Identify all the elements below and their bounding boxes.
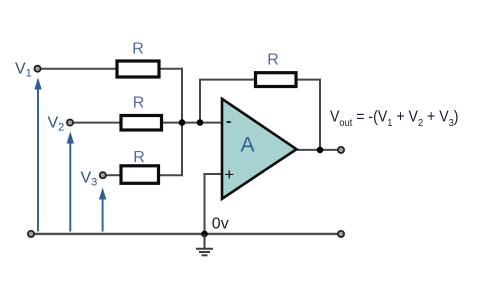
wire feedback drop vertical [319,79,321,150]
svg-text:R: R [132,41,144,58]
svg-text:V3: V3 [81,170,98,189]
svg-text:R: R [267,52,279,69]
arrow V2 [67,132,74,232]
wire non-inverting input to ground rail [204,173,206,234]
terminal output [338,147,344,153]
terminal rail left [28,231,34,237]
terminal rail right [338,231,344,237]
wire feedback riser [199,80,201,123]
wire V2 to R2 [73,122,120,124]
junction ground rail [201,231,208,238]
svg-text:V2: V2 [48,115,65,134]
wire R1 to bus [160,68,183,70]
terminal V2 [67,120,73,126]
wire V1 to R1 [41,68,116,70]
wire summing bus vertical [181,68,183,176]
resistor R1 [117,61,159,77]
wire riser to feedback resistor [199,79,254,81]
junction feedback tap [197,119,204,126]
junction output feedback [317,147,324,154]
svg-text:-: - [226,113,231,130]
wire R3 to bus [159,174,183,176]
resistor R feedback [256,73,297,87]
terminal V3 [100,172,106,178]
svg-text:R: R [133,95,145,112]
wire R2 to op-amp inverting input [162,122,222,124]
wire non-inverting input stub [204,173,222,175]
svg-text:Vout = -(V1 + V2 + V3): Vout = -(V1 + V2 + V3) [330,109,459,130]
wire 0v ground rail [31,233,341,235]
op-amp A [222,99,297,199]
junction bus and inverting node [179,119,186,126]
arrow V3 [99,188,106,232]
resistor R2 [121,116,162,131]
arrow V1 [34,78,41,232]
svg-text:+: + [224,165,234,184]
svg-text:R: R [133,149,145,166]
svg-text:A: A [241,134,255,157]
wire output [295,149,338,151]
wire V3 to R3 [106,174,120,176]
terminal V1 [34,66,40,72]
svg-text:0v: 0v [212,216,229,233]
resistor R3 [121,166,159,184]
svg-text:V1: V1 [15,61,32,80]
ground symbol [196,234,213,255]
wire feedback resistor to drop [297,79,321,81]
